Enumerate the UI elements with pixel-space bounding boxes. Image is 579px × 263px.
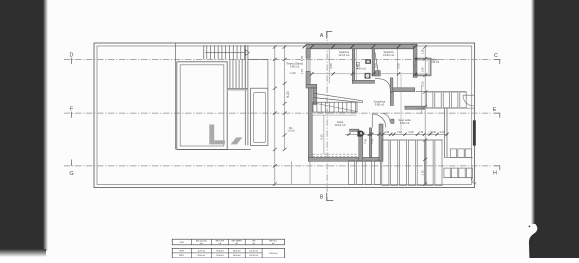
stair landing bottom line — [227, 88, 248, 90]
label spalnica 1 — [339, 50, 350, 57]
axis label G — [69, 160, 73, 178]
axis label H — [493, 166, 500, 177]
svg-text:2.30: 2.30 — [421, 170, 425, 176]
axis label C — [494, 53, 500, 64]
thin line beside right dim — [421, 85, 423, 114]
dimension line v2 — [283, 45, 287, 151]
big left room double wall — [177, 62, 227, 150]
svg-text:3.60 m2: 3.60 m2 — [430, 61, 439, 64]
soba dashed floor lines — [313, 154, 358, 156]
comb top bars — [427, 92, 467, 108]
svg-text:13.10 m2: 13.10 m2 — [335, 123, 346, 127]
svg-text:96.01 m2: 96.01 m2 — [198, 255, 206, 257]
axis line D-C horizontal — [64, 58, 491, 60]
stair flight 1 treads — [207, 45, 245, 59]
stair flight 3 treads — [317, 102, 356, 112]
soba top boundary line — [311, 114, 357, 116]
axis line F-E horizontal — [64, 112, 491, 114]
svg-text:1.05: 1.05 — [374, 63, 378, 69]
svg-text:3.46 m2: 3.46 m2 — [290, 65, 300, 69]
svg-text:2.30: 2.30 — [428, 131, 433, 134]
table header box — [172, 239, 284, 245]
svg-text:H: H — [493, 171, 497, 177]
axis label E — [493, 107, 500, 118]
balcony outline — [415, 58, 431, 76]
building left wall piece — [306, 72, 310, 85]
svg-text:12.60 m2: 12.60 m2 — [383, 53, 394, 57]
svg-text:12.16 m2: 12.16 m2 — [339, 53, 350, 57]
svg-text:5.60 m2: 5.60 m2 — [375, 103, 385, 107]
svg-text:174.81 m2: 174.81 m2 — [269, 253, 278, 255]
comb hang line bottom edge — [415, 107, 474, 109]
dimension chain y134 — [345, 131, 449, 136]
right dark photo bar — [529, 0, 579, 258]
axis label B — [320, 193, 334, 201]
svg-text:m2: m2 — [200, 243, 203, 245]
svg-text:122.55 m2: 122.55 m2 — [249, 250, 258, 252]
interior dim line bedroom1 — [329, 49, 333, 84]
svg-text:3.50: 3.50 — [397, 63, 401, 69]
stair flight 3 outline — [313, 102, 357, 112]
bottom wall upper-right part — [390, 88, 415, 92]
axis label F — [70, 107, 74, 118]
interior dim line spal soba — [400, 74, 402, 134]
soba top wall piece — [350, 129, 359, 131]
deck stripes left group — [349, 161, 381, 185]
interior dim line bedroom2 — [397, 49, 401, 88]
label spalnica 2 — [383, 50, 394, 57]
watermark chimney L — [209, 125, 225, 145]
axis label D — [70, 53, 74, 65]
svg-text:PRITL.: PRITL. — [179, 255, 185, 257]
svg-text:9.20: 9.20 — [286, 91, 290, 98]
wc fixture dark — [358, 131, 364, 137]
label balkon — [430, 58, 439, 64]
svg-text:D: D — [70, 53, 74, 59]
partition line left section — [174, 44, 176, 150]
svg-text:1.20: 1.20 — [290, 71, 296, 75]
closet top line — [248, 60, 268, 89]
closet outline — [251, 88, 268, 145]
interior dim line soba — [319, 115, 324, 154]
comb bottom bars — [444, 168, 473, 178]
stair flight 1 side line — [203, 45, 205, 59]
building left wall lower — [308, 88, 312, 161]
svg-text:m2: m2 — [236, 243, 239, 245]
stair void bottom room line — [177, 149, 251, 151]
bathroom left wall — [352, 49, 354, 84]
bathroom corner block — [375, 71, 380, 76]
deck stripes right group — [382, 140, 442, 185]
soba right wall — [359, 131, 363, 161]
pantry label — [287, 127, 295, 133]
svg-text:207.81 m2: 207.81 m2 — [249, 255, 258, 257]
axis label A — [320, 31, 333, 39]
mid vertical wall — [390, 78, 393, 92]
dimension line right v — [421, 45, 428, 186]
svg-text:2.10: 2.10 — [397, 131, 402, 134]
svg-text:1.35: 1.35 — [300, 55, 304, 61]
label soba — [335, 120, 346, 127]
svg-text:1.50: 1.50 — [385, 131, 390, 134]
small rotated dims lower — [362, 138, 374, 144]
svg-text:E: E — [493, 107, 497, 113]
svg-text:9.60 m2: 9.60 m2 — [400, 121, 410, 125]
svg-text:m2: m2 — [272, 243, 275, 245]
svg-text:G: G — [69, 171, 73, 177]
svg-text:36.00 m2: 36.00 m2 — [233, 255, 241, 257]
bathroom sink dark — [365, 59, 371, 63]
plot border inner — [97, 46, 472, 185]
bathroom small fixture — [357, 62, 360, 66]
right wall jog — [413, 74, 417, 77]
left dark photo bar — [0, 0, 48, 257]
svg-text:2.30: 2.30 — [418, 131, 423, 134]
svg-text:2.20: 2.20 — [421, 81, 425, 87]
door arc hallway — [375, 78, 390, 89]
bedroom door leaf diagonal — [375, 52, 379, 75]
lower area line 1 — [291, 161, 293, 184]
bathroom bottom wall — [352, 80, 374, 83]
terasa label — [286, 62, 303, 76]
svg-text:36.00 m2: 36.00 m2 — [233, 250, 241, 252]
building left wall upper — [306, 49, 310, 58]
svg-text:1.50: 1.50 — [421, 49, 425, 55]
bathroom toilet dark — [365, 73, 371, 79]
deck top line — [382, 139, 443, 141]
comb door arc — [463, 95, 474, 106]
svg-text:1.10: 1.10 — [300, 68, 304, 74]
svg-text:A: A — [320, 33, 324, 39]
bathroom right wall — [372, 49, 374, 76]
right wall line pair — [445, 108, 448, 157]
svg-text:75.80 m2: 75.80 m2 — [216, 250, 224, 252]
dimension line v1 — [273, 45, 277, 186]
svg-text:0.90: 0.90 — [409, 131, 414, 134]
table body box — [172, 248, 284, 258]
svg-text:10.75 m2: 10.75 m2 — [198, 250, 206, 252]
wc right thin wall — [369, 128, 371, 157]
soba door arc — [381, 113, 390, 122]
stair flight 3 diagonal cut — [313, 103, 357, 112]
svg-text:4.10: 4.10 — [319, 134, 323, 140]
kopalnica door arc — [372, 114, 386, 128]
svg-text:POD: POD — [180, 242, 185, 244]
wall horizontal right mid — [405, 106, 425, 109]
kopalnica upper wall segment — [390, 92, 393, 106]
dim texts small left of wall — [300, 55, 304, 74]
label spal soba — [398, 118, 411, 125]
stair flight 2 treads — [230, 59, 245, 88]
plot border outer — [94, 43, 475, 188]
comb mid bars — [444, 149, 473, 158]
building left jog wall — [306, 84, 317, 88]
top wall dimension ticks — [303, 45, 417, 49]
corner bracket bottom right — [471, 178, 476, 184]
stair wedge diagonals — [313, 93, 363, 102]
left window — [306, 58, 310, 72]
stair room inner wall — [313, 88, 316, 105]
svg-text:1.40: 1.40 — [421, 67, 425, 73]
svg-text:1.6 m2: 1.6 m2 — [287, 130, 295, 133]
axis line A-B vertical — [326, 31, 328, 201]
kopalnica wall block — [391, 119, 394, 123]
stair walk line with arrow — [205, 50, 249, 56]
svg-text:75.80 m2: 75.80 m2 — [216, 255, 224, 257]
interior dim line bath — [355, 49, 359, 81]
stair column right wall — [245, 45, 248, 145]
dark wall bar on right border — [473, 120, 476, 145]
comb hang line top — [416, 91, 466, 93]
svg-text:m2: m2 — [252, 243, 255, 245]
watermark wedge — [231, 137, 243, 144]
axis line G-H horizontal — [64, 165, 491, 167]
svg-text:4.90 m2: 4.90 m2 — [357, 67, 367, 71]
lower right wall chunk — [379, 124, 383, 161]
label kopalnica — [374, 100, 386, 107]
building top wall — [306, 44, 417, 49]
building right wall — [413, 44, 417, 77]
building bottom wall — [308, 157, 381, 161]
svg-text:4.50: 4.50 — [329, 63, 333, 69]
dimension row mid height ticks — [310, 72, 417, 75]
svg-text:B: B — [320, 195, 324, 201]
lower area line 2 — [309, 161, 311, 184]
svg-text:m2: m2 — [219, 243, 222, 245]
svg-text:C: C — [494, 53, 498, 59]
